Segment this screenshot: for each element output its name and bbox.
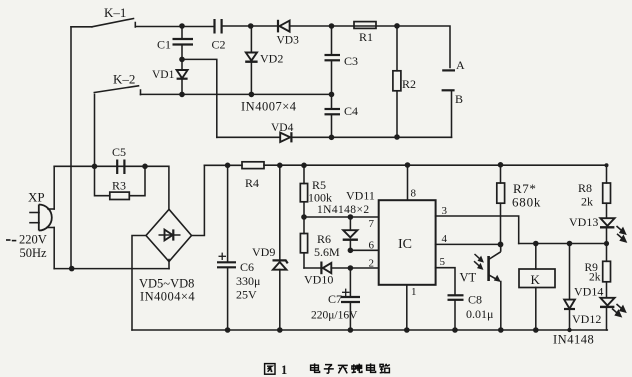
svg-text:VD11: VD11 [346, 189, 375, 203]
svg-text:C2: C2 [212, 38, 226, 52]
svg-text:25V: 25V [236, 288, 257, 302]
svg-text:A: A [456, 58, 465, 72]
svg-text:XP: XP [28, 190, 45, 205]
svg-text:IN4148: IN4148 [553, 333, 594, 347]
svg-text:R8: R8 [578, 181, 592, 195]
svg-text:5.6M: 5.6M [314, 245, 340, 259]
svg-text:VD1: VD1 [152, 69, 175, 81]
svg-text:IC: IC [398, 237, 412, 252]
svg-text:3: 3 [442, 205, 448, 217]
svg-text:VD13: VD13 [569, 215, 598, 229]
svg-text:5: 5 [440, 256, 446, 268]
svg-text:C4: C4 [344, 104, 358, 118]
svg-text:VD14: VD14 [574, 285, 603, 299]
svg-text:VD2: VD2 [260, 52, 283, 66]
svg-text:VD3: VD3 [277, 35, 300, 47]
svg-text:C7: C7 [328, 292, 342, 306]
svg-text:VD10: VD10 [304, 273, 333, 287]
svg-text:2: 2 [369, 258, 375, 270]
svg-text:K: K [531, 272, 541, 287]
svg-text:R2: R2 [402, 77, 416, 91]
svg-text:6: 6 [369, 240, 375, 252]
svg-text:2k: 2k [581, 195, 593, 209]
svg-text:C8: C8 [468, 293, 482, 307]
svg-text:1: 1 [281, 363, 287, 377]
svg-text:1N4148×2: 1N4148×2 [317, 204, 370, 216]
svg-text:IN4007×4: IN4007×4 [241, 100, 297, 114]
svg-text:R3: R3 [112, 179, 126, 193]
svg-text:VT: VT [460, 271, 477, 285]
svg-text:50Hz: 50Hz [20, 246, 48, 260]
svg-text:220V: 220V [19, 233, 47, 247]
svg-text:680k: 680k [512, 195, 541, 210]
svg-text:IN4004×4: IN4004×4 [140, 290, 195, 304]
svg-text:1: 1 [411, 286, 417, 298]
svg-text:VD5~VD8: VD5~VD8 [139, 277, 194, 291]
svg-text:0.01μ: 0.01μ [466, 307, 493, 321]
svg-text:7: 7 [369, 218, 375, 230]
svg-text:B: B [455, 92, 463, 106]
svg-text:8: 8 [411, 188, 417, 200]
svg-text:VD12: VD12 [572, 312, 601, 326]
svg-text:330μ: 330μ [236, 274, 260, 288]
svg-text:C5: C5 [112, 145, 126, 159]
svg-text:R6: R6 [317, 232, 331, 246]
svg-text:C6: C6 [240, 260, 254, 274]
svg-text:R1: R1 [359, 30, 373, 44]
svg-text:100k: 100k [308, 191, 332, 205]
svg-text:C1: C1 [157, 38, 171, 52]
svg-text:2k: 2k [589, 272, 601, 284]
svg-text:4: 4 [442, 233, 448, 245]
svg-text:K–1: K–1 [104, 5, 126, 20]
svg-text:VD4: VD4 [271, 122, 294, 134]
svg-text:220μ/16V: 220μ/16V [311, 310, 358, 322]
svg-text:K–2: K–2 [113, 72, 135, 87]
svg-text:C3: C3 [344, 54, 358, 68]
svg-text:R4: R4 [245, 176, 259, 190]
svg-text:VD9: VD9 [252, 245, 275, 259]
